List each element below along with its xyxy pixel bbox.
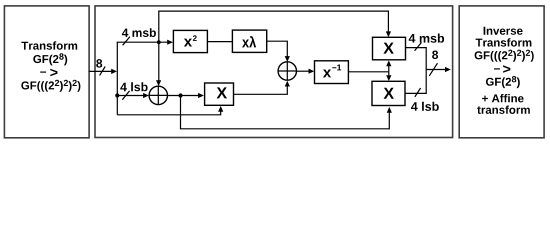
wire msb/lsb split vertical: [116, 42, 118, 115]
wire output bus 8: [426, 69, 445, 71]
label left-box "Transform": [21, 41, 77, 49]
arrowhead delta^-1 into top multiplier: [386, 60, 391, 66]
wire x^-1 output toward multipliers: [348, 71, 388, 73]
label block X top-right: [383, 43, 393, 54]
label block x^2 superscript: [193, 35, 197, 41]
label bus 8 (output): [432, 51, 438, 60]
label bus 8 (input): [96, 59, 102, 68]
arrowhead (gamma1+gamma0) into bottom-right multiplier: [387, 107, 392, 113]
junction (gamma1+gamma0) tap: [178, 93, 182, 97]
label block X bottom-left: [217, 87, 227, 98]
label right-box "GF(((2^2)^2)^2)": [475, 50, 534, 62]
bus-width slash (4 lsb out): [415, 88, 421, 97]
label right-box gt: [503, 65, 510, 73]
arrowhead gamma1 into top multiplier: [386, 31, 391, 37]
arrowhead 4 lsb into xor B: [143, 93, 149, 98]
wire xor A output to x^-1: [297, 70, 310, 72]
arrowhead delta^-1 into bottom-right multiplier: [386, 75, 391, 81]
label left-box "GF(2^8)": [33, 53, 67, 65]
block x^2 (squarer): [173, 30, 207, 52]
bus-width slash (4 msb): [123, 37, 130, 46]
wire xor B output to bottom-left multiplier: [168, 95, 199, 97]
bus-width slash (output 8): [429, 63, 437, 76]
wire bottom-left multiplier output up to xor A: [234, 85, 288, 94]
arrowhead xor A output into x^-1: [309, 69, 315, 74]
block multiplier bottom-left: [205, 83, 234, 105]
xor B (msb xor lsb): [149, 86, 167, 104]
wire gamma0 feedback to bottom-left multiplier: [117, 110, 220, 115]
label right-box "+ Affine": [482, 94, 523, 102]
arrowhead multiplier output into xor A: [285, 81, 290, 87]
junction gamma1 tap on msb wire: [157, 40, 161, 44]
xor A (delta sum): [278, 62, 296, 80]
label 4 msb (input): [122, 28, 156, 37]
wire 4 msb output to merge: [406, 48, 427, 70]
label right-box "transform": [477, 106, 530, 114]
junction gamma0 tap at lsb split: [115, 93, 119, 97]
arrowhead x-lambda output into xor A: [285, 56, 290, 62]
wire delta^-1 up branch: [388, 65, 390, 72]
wire gamma1 down into xor B: [158, 42, 160, 81]
block multiplier bottom-right: [372, 81, 405, 105]
arrowhead gamma0 into bottom-left multiplier: [218, 106, 223, 112]
arrowhead input bus into split: [111, 69, 117, 74]
label block x^-1: [323, 70, 331, 78]
bus-width slash (4 msb out): [415, 43, 422, 51]
transform block (left outer box): [4, 6, 89, 138]
arrowhead gamma1 into xor B: [156, 80, 161, 86]
label block X bottom-right: [384, 88, 394, 99]
label left-box gt: [50, 69, 57, 77]
label block x-lambda: [242, 36, 256, 47]
label left-box dash: [40, 72, 46, 73]
label left-box "GF(((2^2)^2)^2)": [21, 80, 80, 92]
wire (gamma1+gamma0) feedback to bottom-right multiplier: [181, 96, 390, 129]
label 4 lsb (input): [120, 82, 147, 91]
inversion datapath (middle outer box): [95, 6, 453, 138]
wire x-lambda output down to xor A: [267, 41, 288, 57]
block x^-1 (inverter): [315, 61, 349, 84]
arrowhead output bus into inverse transform: [445, 67, 451, 72]
label right-box dash: [494, 68, 500, 69]
label 4 lsb (output): [411, 102, 439, 111]
label block x^2: [184, 39, 192, 47]
label right-box "Inverse": [484, 27, 523, 35]
label right-box "GF(2^8)": [486, 76, 520, 88]
wire x^2 to x-lambda: [207, 41, 232, 43]
block multiplier top-right: [373, 37, 406, 60]
bus-width slash (4 lsb): [122, 91, 129, 100]
bus-width slash (input 8): [100, 67, 106, 76]
wire gamma1 feedback to top multiplier: [159, 11, 389, 42]
inverse transform block (right outer box): [459, 6, 544, 138]
arrowhead 4 msb into x^2: [167, 40, 173, 45]
wire 4 lsb into xor B: [117, 95, 143, 97]
block x-lambda (constant multiplier): [232, 30, 266, 52]
arrowhead xor B output into multiplier: [198, 93, 204, 98]
wire 4 lsb output to merge: [405, 70, 426, 94]
wire 4 msb toward x^2: [117, 41, 168, 43]
label right-box "Transform": [476, 38, 532, 46]
wire delta^-1 down branch: [388, 72, 390, 78]
label 4 msb (output): [409, 34, 444, 43]
label block x^-1 superscript: [332, 65, 341, 71]
wire input bus 8: [89, 70, 112, 72]
